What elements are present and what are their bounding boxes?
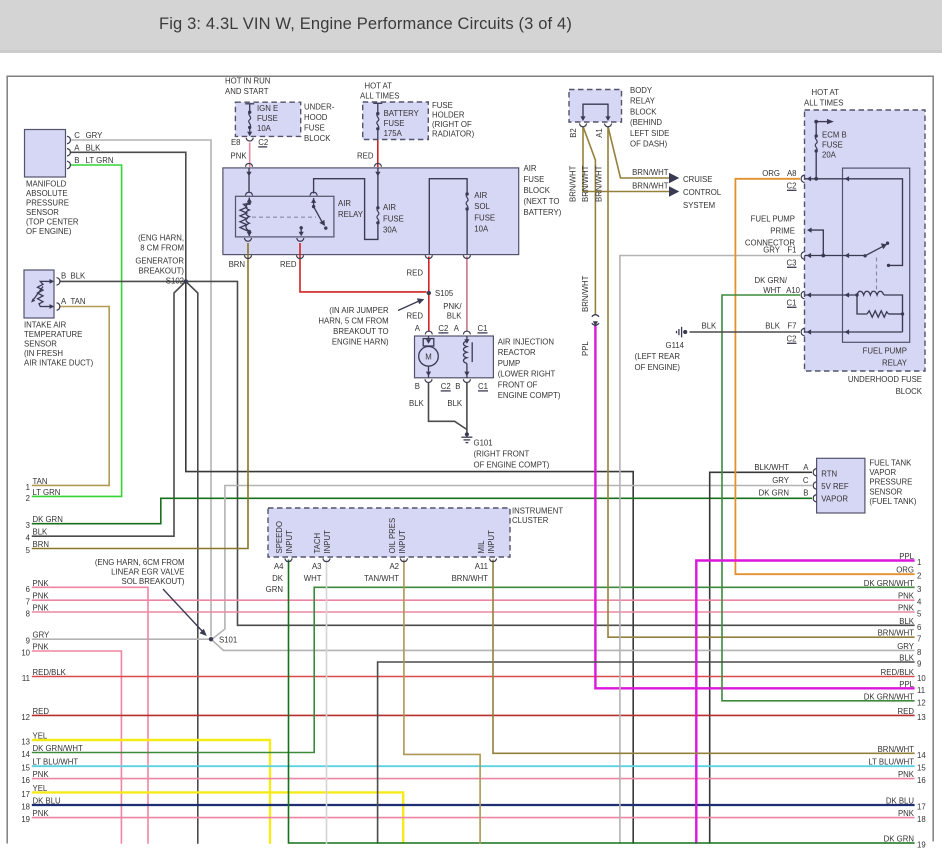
svg-text:SENSOR: SENSOR (869, 487, 902, 496)
svg-text:(RIGHT FRONT: (RIGHT FRONT (474, 450, 530, 459)
fuel pump relay switch (863, 242, 890, 268)
wire A10 row inside to relay coil (805, 294, 858, 296)
wire inside block battery feed to air fuse (377, 168, 379, 208)
wire BLK/WHT fuel tank sensor A down to bottom cut (710, 472, 812, 844)
wire PNK row 8-5 across (32, 611, 915, 613)
svg-text:A: A (415, 324, 421, 333)
wire MAP C GRY to S101 (71, 140, 212, 637)
wire inside block air sol fuse loop (429, 179, 467, 255)
svg-text:LINEAR EGR VALVE: LINEAR EGR VALVE (111, 568, 184, 577)
svg-text:A: A (61, 297, 67, 306)
instrument cluster dashed box (268, 508, 510, 557)
svg-text:19: 19 (21, 815, 30, 824)
svg-text:A8: A8 (787, 169, 797, 178)
svg-text:HOOD: HOOD (304, 113, 328, 122)
svg-text:PNK: PNK (231, 152, 248, 161)
wire PNK left stub 10 down to bottom cut (32, 651, 122, 844)
svg-text:19: 19 (917, 841, 926, 850)
svg-text:BATTERY): BATTERY) (524, 208, 562, 217)
pin arcs air fuse block bottom exits (244, 255, 251, 258)
wire BLK pump B to ground join (429, 383, 467, 430)
arrows inside fuel pump relay at pins (845, 176, 850, 181)
svg-text:7: 7 (917, 635, 921, 644)
svg-text:4: 4 (26, 534, 31, 543)
svg-text:FRONT OF: FRONT OF (498, 380, 538, 389)
svg-text:LT GRN: LT GRN (86, 156, 114, 165)
IAT thermistor (31, 279, 54, 309)
wire BRN/WHT B2 to cruise arrow 2 (583, 127, 670, 192)
svg-text:8: 8 (26, 610, 30, 619)
svg-text:INPUT: INPUT (285, 530, 294, 554)
air relay coil top pin (247, 198, 252, 205)
wire GRY left stub 9 to S101 (32, 638, 211, 640)
IAT sensor box (24, 270, 54, 318)
wire A8 row inside underhood box (805, 178, 843, 180)
svg-text:S102: S102 (166, 277, 184, 286)
svg-text:GRN: GRN (266, 585, 283, 594)
svg-text:SOL: SOL (474, 202, 490, 211)
svg-text:RED: RED (280, 260, 297, 269)
air relay box (236, 196, 334, 237)
wire MAP A BLK to S102 (71, 152, 186, 281)
svg-text:PUMP: PUMP (498, 359, 521, 368)
svg-text:A11: A11 (475, 562, 488, 571)
svg-text:BRN/WHT: BRN/WHT (878, 629, 915, 638)
wire body relay block internal loop (583, 104, 608, 117)
svg-text:BLK: BLK (447, 399, 463, 408)
svg-text:A: A (803, 463, 809, 472)
wire inside block air sol fuse to bottom exit (466, 209, 468, 255)
svg-text:BLK: BLK (33, 528, 49, 537)
svg-text:FUEL PUMP: FUEL PUMP (751, 215, 795, 224)
svg-text:RELAY: RELAY (338, 210, 364, 219)
body relay block dashed box (569, 90, 622, 123)
air relay coil resistor zigzag (240, 203, 249, 231)
svg-text:B2: B2 (569, 128, 578, 138)
wire S101 leg to right stub 8 GRY (211, 639, 915, 650)
svg-text:INSTRUMENT: INSTRUMENT (512, 507, 563, 516)
svg-text:UNDER-: UNDER- (304, 103, 335, 112)
svg-text:OF ENGINE COMPT): OF ENGINE COMPT) (474, 461, 550, 470)
svg-text:ENGINE HARN): ENGINE HARN) (332, 338, 389, 347)
air relay bottom pin arcs (244, 238, 251, 241)
svg-text:BRN/WHT: BRN/WHT (595, 165, 604, 202)
svg-text:DK GRN/: DK GRN/ (755, 276, 788, 285)
svg-text:RED: RED (407, 269, 424, 278)
svg-text:SENSOR: SENSOR (24, 340, 57, 349)
fuse AIR SOL FUSE 10A squiggle (465, 192, 468, 210)
svg-text:INPUT: INPUT (398, 530, 407, 554)
svg-text:C1: C1 (787, 299, 797, 308)
svg-text:10: 10 (21, 649, 30, 658)
fuse IGN E squiggle (245, 104, 254, 136)
svg-text:TAN/WHT: TAN/WHT (364, 574, 399, 583)
IGN E fuse dashed box (235, 102, 300, 136)
svg-text:VAPOR: VAPOR (821, 495, 848, 504)
wire BRN/WHT cluster A11 to right stub 14 (493, 560, 915, 754)
svg-text:RELAY: RELAY (630, 97, 656, 106)
svg-text:BLOCK: BLOCK (304, 134, 331, 143)
svg-text:A2: A2 (389, 562, 399, 571)
svg-text:INTAKE AIR: INTAKE AIR (24, 321, 67, 330)
svg-text:30A: 30A (383, 226, 398, 235)
svg-text:AND START: AND START (225, 87, 269, 96)
wire A8 row inside relay to switch contact (843, 179, 903, 266)
wire YEL left stub 13 down to bottom cut (32, 740, 270, 844)
svg-text:AIR: AIR (474, 191, 487, 200)
svg-text:C: C (803, 476, 809, 485)
wire WHT cluster A3 down to bottom cut (326, 560, 328, 844)
wire BRN/WHT B2 branch down to PPL connector (583, 127, 595, 315)
svg-text:(FUEL TANK): (FUEL TANK) (869, 497, 916, 506)
svg-text:10: 10 (917, 674, 926, 683)
svg-text:C3: C3 (787, 259, 797, 268)
splice S102 (184, 279, 188, 283)
svg-text:GRY: GRY (33, 631, 51, 640)
svg-text:A10: A10 (786, 286, 801, 295)
svg-text:C2: C2 (438, 324, 448, 333)
wire RED battery fuse to air fuse block (377, 141, 379, 168)
arrow S101 note (163, 589, 203, 632)
svg-text:15: 15 (917, 764, 926, 773)
svg-text:1: 1 (26, 483, 30, 492)
svg-text:(LOWER RIGHT: (LOWER RIGHT (498, 370, 556, 379)
pin arc E8/C2 under IGN fuse box (246, 138, 253, 141)
svg-text:18: 18 (21, 803, 30, 812)
svg-text:BRN/WHT: BRN/WHT (452, 574, 489, 583)
svg-text:F7: F7 (787, 322, 796, 331)
svg-text:SYSTEM: SYSTEM (683, 201, 715, 210)
svg-text:FUSE: FUSE (304, 124, 325, 133)
arrow into S105 from note (398, 301, 419, 311)
svg-text:C: C (74, 131, 80, 140)
svg-text:14: 14 (21, 750, 30, 759)
svg-text:BLOCK: BLOCK (630, 107, 657, 116)
svg-text:PPL: PPL (899, 680, 914, 689)
splice S101 (209, 637, 213, 641)
svg-text:SENSOR: SENSOR (26, 208, 59, 217)
svg-text:A3: A3 (312, 562, 322, 571)
wire RED air sol feed block to S105 to pump A (428, 257, 430, 332)
svg-text:A1: A1 (595, 128, 604, 138)
svg-text:8 CM FROM: 8 CM FROM (140, 244, 184, 253)
wire YEL left stub 17 down to bottom cut (32, 792, 403, 843)
svg-text:BLK/WHT: BLK/WHT (754, 463, 789, 472)
svg-text:FUSE: FUSE (383, 215, 404, 224)
body relay block pin arrows and arcs (579, 116, 611, 126)
svg-text:PNK: PNK (33, 643, 50, 652)
wire ECM B feed branch arrow right (816, 121, 827, 123)
svg-text:5: 5 (917, 610, 922, 619)
fuse BATTERY squiggle (373, 103, 382, 140)
wire ECM B fuse feed inside underhood box (815, 122, 817, 136)
svg-text:C2: C2 (787, 335, 797, 344)
svg-text:(ENG HARN,: (ENG HARN, (138, 234, 184, 243)
svg-text:M: M (425, 353, 432, 362)
wire BLK G114 to F7 (690, 331, 801, 333)
svg-text:TAN: TAN (71, 297, 86, 306)
svg-text:LEFT SIDE: LEFT SIDE (630, 129, 669, 138)
svg-text:3: 3 (26, 521, 30, 530)
svg-text:BLOCK: BLOCK (524, 186, 551, 195)
svg-text:BATTERY: BATTERY (384, 109, 420, 118)
svg-text:RADIATOR): RADIATOR) (432, 130, 475, 139)
svg-text:BLK: BLK (86, 143, 102, 152)
ground G114 (677, 327, 688, 338)
svg-text:BLOCK: BLOCK (896, 387, 923, 396)
svg-text:FUSE: FUSE (384, 119, 405, 128)
svg-text:ORG: ORG (896, 566, 914, 575)
svg-text:DK GRN: DK GRN (884, 835, 914, 844)
air relay switch blade and contacts (311, 198, 327, 230)
wire inside block air relay to air fuse bottom loop (314, 179, 378, 240)
ground G101 (461, 432, 472, 442)
svg-text:B: B (455, 382, 460, 391)
svg-text:LT GRN: LT GRN (33, 488, 61, 497)
svg-text:18: 18 (917, 815, 926, 824)
svg-text:AIR INTAKE DUCT): AIR INTAKE DUCT) (24, 359, 94, 368)
pump motor circle M (419, 336, 439, 378)
splice S105 (427, 291, 431, 295)
svg-text:BLK: BLK (899, 617, 915, 626)
svg-text:F1: F1 (787, 246, 796, 255)
svg-text:BRN/WHT: BRN/WHT (581, 165, 590, 202)
svg-text:OF ENGINE): OF ENGINE) (26, 227, 72, 236)
MAP sensor box (25, 130, 66, 178)
svg-text:FUSE: FUSE (257, 114, 278, 123)
svg-text:BLK: BLK (899, 654, 915, 663)
svg-text:GRY: GRY (772, 476, 790, 485)
svg-text:RED/BLK: RED/BLK (33, 668, 67, 677)
air fuse block box (223, 168, 519, 255)
svg-text:HOT AT: HOT AT (812, 88, 840, 97)
svg-text:TEMPERATURE: TEMPERATURE (24, 330, 82, 339)
svg-text:ECM B: ECM B (822, 131, 847, 140)
wire ECM B fuse output to A8 junction (815, 152, 817, 179)
svg-text:DK BLU: DK BLU (33, 797, 62, 806)
wire relay coil right to resistor node (884, 295, 903, 332)
wire relay resistor left node (857, 295, 867, 314)
svg-text:DK GRN/WHT: DK GRN/WHT (864, 579, 914, 588)
svg-text:4: 4 (917, 598, 922, 607)
svg-text:DK GRN: DK GRN (33, 515, 63, 524)
svg-text:ALL TIMES: ALL TIMES (360, 92, 399, 101)
svg-text:AIR: AIR (524, 164, 537, 173)
svg-text:MANIFOLD: MANIFOLD (26, 180, 67, 189)
svg-text:RED: RED (33, 707, 50, 716)
svg-text:IGN E: IGN E (257, 104, 278, 113)
fuel pump relay dashed link (876, 258, 878, 292)
svg-text:CRUISE: CRUISE (683, 175, 712, 184)
svg-text:BLK: BLK (702, 322, 718, 331)
svg-text:(BEHIND: (BEHIND (630, 118, 662, 127)
air relay dashed actuation line (252, 216, 316, 218)
fuel pump relay resistor (867, 311, 904, 317)
svg-text:BRN/WHT: BRN/WHT (569, 165, 578, 202)
svg-text:UNDERHOOD FUSE: UNDERHOOD FUSE (848, 375, 922, 384)
svg-text:GRY: GRY (763, 246, 781, 255)
svg-text:PNK: PNK (898, 604, 915, 613)
fuse ECM B squiggle (815, 134, 818, 152)
fuse AIR FUSE 30A squiggle (376, 206, 379, 224)
svg-text:OF ENGINE): OF ENGINE) (635, 363, 681, 372)
wire PNK row 19-18 across (32, 817, 915, 819)
svg-text:12: 12 (917, 698, 926, 707)
svg-text:WHT: WHT (763, 286, 781, 295)
wire DK GRN cluster A4 to right stub 19 (289, 560, 915, 844)
svg-text:BRN/WHT: BRN/WHT (632, 182, 669, 191)
svg-text:16: 16 (21, 776, 30, 785)
svg-text:BLK: BLK (447, 312, 463, 321)
wire S102 right leg BLK down to bottom cut (186, 281, 198, 843)
svg-text:YEL: YEL (33, 732, 48, 741)
wire relay resistor right link (889, 313, 903, 315)
svg-text:(IN FRESH: (IN FRESH (24, 349, 63, 358)
svg-text:13: 13 (21, 738, 30, 747)
svg-text:6: 6 (26, 585, 30, 594)
svg-text:12: 12 (21, 713, 30, 722)
svg-text:PPL: PPL (899, 552, 914, 561)
svg-text:BRN: BRN (33, 540, 49, 549)
wire F1 row inside underhood box to switch pivot (805, 255, 866, 257)
svg-text:PRIME: PRIME (770, 227, 795, 236)
svg-text:7: 7 (26, 598, 30, 607)
svg-text:C1: C1 (478, 382, 488, 391)
wire DK GRN left stub 3 to fuel tank sensor VAPOR B (32, 498, 812, 523)
svg-text:AIR INJECTION: AIR INJECTION (498, 338, 554, 347)
svg-text:RELAY: RELAY (882, 359, 908, 368)
svg-text:14: 14 (917, 751, 926, 760)
arrow into block PNK (246, 172, 251, 177)
wire GRY fuel tank sensor C to S101 (212, 486, 812, 640)
svg-text:HARN, 5 CM FROM: HARN, 5 CM FROM (318, 317, 388, 326)
svg-text:A: A (74, 143, 80, 152)
svg-text:9: 9 (917, 660, 921, 669)
svg-text:LT BLU/WHT: LT BLU/WHT (868, 758, 914, 767)
svg-text:DK GRN/WHT: DK GRN/WHT (33, 744, 83, 753)
arrow ECM feed right (827, 119, 834, 124)
wire IAT A TAN to left stub 1 (32, 307, 109, 486)
svg-text:PNK: PNK (33, 579, 50, 588)
wire PNK/BLK block to pump C2-A (466, 257, 468, 332)
pump top pin arcs (425, 331, 432, 334)
wire BRN/WHT A1 branch down to right stub 7 (608, 127, 915, 638)
svg-text:11: 11 (22, 674, 30, 683)
svg-text:A4: A4 (274, 562, 284, 571)
fuel tank vapor pressure sensor box (817, 458, 865, 513)
svg-text:RTN: RTN (821, 469, 837, 478)
svg-text:PPL: PPL (581, 341, 590, 356)
svg-text:FUSE: FUSE (432, 101, 453, 110)
svg-text:S101: S101 (219, 636, 237, 645)
pin arc air fuse block top RED entry (374, 163, 381, 166)
svg-text:2: 2 (917, 572, 921, 581)
svg-text:B: B (415, 382, 420, 391)
svg-text:C2: C2 (258, 138, 268, 147)
svg-text:G101: G101 (474, 439, 493, 448)
svg-text:HOT AT: HOT AT (365, 82, 393, 91)
wire PNK IGN fuse to air fuse block (249, 143, 251, 168)
wire ORG A8 to right stub 2 (735, 179, 914, 574)
wire PNK left stub 6 down to bottom cut (32, 587, 148, 844)
svg-text:(ENG HARN, 6CM FROM: (ENG HARN, 6CM FROM (95, 558, 185, 567)
svg-text:C2: C2 (787, 182, 797, 191)
wire RED row 12-13 across (32, 714, 915, 716)
svg-text:17: 17 (917, 803, 926, 812)
svg-text:LT BLU/WHT: LT BLU/WHT (33, 758, 79, 767)
svg-text:RED: RED (898, 707, 915, 716)
wire S102 left leg to left stub 4 BLK (32, 281, 186, 536)
svg-text:VAPOR: VAPOR (869, 468, 896, 477)
pin arc air fuse block top PNK entry (245, 163, 252, 166)
svg-text:PNK/: PNK/ (443, 302, 462, 311)
svg-text:YEL: YEL (33, 784, 48, 793)
svg-text:REACTOR: REACTOR (498, 348, 536, 357)
svg-text:B: B (803, 489, 808, 498)
wire BLK right stub 9 down to bottom cut (378, 662, 915, 844)
svg-text:1: 1 (917, 558, 921, 567)
svg-text:PRESSURE: PRESSURE (869, 478, 912, 487)
svg-text:BLK: BLK (765, 322, 781, 331)
svg-text:BRN/WHT: BRN/WHT (878, 745, 915, 754)
arrow into block RED (375, 172, 380, 177)
wire MAP B LT GRN to left stub 2 (32, 165, 122, 496)
svg-text:5V REF: 5V REF (821, 482, 849, 491)
svg-text:INPUT: INPUT (323, 530, 332, 554)
svg-text:C1: C1 (478, 324, 488, 333)
svg-text:BLK: BLK (71, 272, 87, 281)
svg-text:GENERATOR: GENERATOR (135, 257, 184, 266)
svg-text:DK GRN/WHT: DK GRN/WHT (864, 692, 914, 701)
svg-text:BRN: BRN (229, 260, 245, 269)
battery fuse dashed box (363, 102, 429, 140)
svg-text:SOL BREAKOUT): SOL BREAKOUT) (122, 577, 185, 586)
svg-text:10A: 10A (257, 124, 272, 133)
inline connector BRN/WHT to PPL (592, 315, 599, 326)
svg-text:17: 17 (21, 790, 30, 799)
svg-text:RED/BLK: RED/BLK (881, 668, 915, 677)
title bar (0, 0, 942, 53)
air injection pump box (415, 336, 494, 378)
underhood box left edge pin arcs (801, 175, 804, 183)
svg-text:HOT IN RUN: HOT IN RUN (225, 76, 270, 85)
wire BLK pump C1-B to G101 (466, 383, 468, 434)
svg-text:PNK: PNK (898, 770, 915, 779)
junction dot A8/ECM fuse (814, 177, 818, 181)
svg-text:PNK: PNK (33, 592, 50, 601)
svg-text:(IN AIR JUMPER: (IN AIR JUMPER (329, 306, 389, 315)
svg-text:A: A (454, 324, 460, 333)
svg-text:8: 8 (917, 648, 921, 657)
svg-text:FUSE: FUSE (474, 214, 495, 223)
svg-text:175A: 175A (384, 129, 403, 138)
wire DK GRN/WHT A10 to right stub 12 (722, 295, 915, 701)
cruise control arrows (669, 173, 679, 183)
IAT pin arcs (57, 278, 60, 286)
svg-text:BRN/WHT: BRN/WHT (581, 275, 590, 312)
underhood fuse block dashed box (805, 110, 926, 371)
svg-text:(LEFT REAR: (LEFT REAR (635, 352, 681, 361)
air relay coil bottom arrow down (247, 230, 252, 237)
instrument cluster pin arcs (285, 558, 292, 561)
svg-text:6: 6 (917, 623, 921, 632)
wire RED air relay output to S105 (300, 243, 427, 292)
svg-text:B: B (74, 156, 79, 165)
svg-text:11: 11 (917, 686, 925, 695)
wire GRY F1 fuel pump relay to bottom cut (620, 256, 800, 844)
svg-text:BLK: BLK (409, 399, 425, 408)
svg-text:G114: G114 (666, 341, 685, 350)
